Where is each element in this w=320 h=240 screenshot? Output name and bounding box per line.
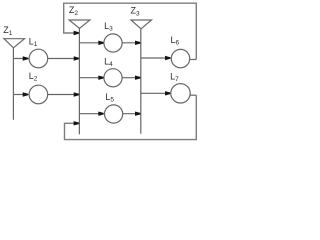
wire left bus (Z2 feed) <box>78 28 80 134</box>
arrow L3 to bus <box>135 41 140 45</box>
wire L7 output <box>190 94 196 96</box>
svg-text:L2: L2 <box>29 71 38 83</box>
wire L4 input <box>79 77 103 79</box>
svg-text:Z3: Z3 <box>131 5 141 17</box>
arrow L2 to bus <box>74 92 79 96</box>
wire top border feedback path <box>64 3 197 59</box>
label Z2 <box>69 5 79 17</box>
svg-text:Z1: Z1 <box>3 25 13 37</box>
wire L3 input <box>79 42 103 44</box>
wire L2 input <box>13 94 28 96</box>
circulator L6 <box>171 49 189 67</box>
arrow into L7 <box>165 91 170 95</box>
arrow into L3 <box>98 41 103 45</box>
svg-text:L1: L1 <box>29 37 38 49</box>
svg-text:Z2: Z2 <box>69 5 79 17</box>
label L5 <box>105 92 114 104</box>
circulator L1 <box>29 49 48 68</box>
arrow bottom feedback into left bus <box>74 121 79 125</box>
antenna Z2 <box>69 20 90 28</box>
circulator L5 <box>105 105 123 123</box>
wire Z1 feed <box>12 48 14 120</box>
arrow into L1 <box>23 56 28 60</box>
circulator L3 <box>104 34 122 52</box>
svg-text:L3: L3 <box>104 21 113 33</box>
arrow L4 to bus <box>135 76 140 80</box>
antenna Z1 <box>4 39 25 48</box>
arrow L5 to bus <box>135 112 140 116</box>
wire L7 input <box>141 92 171 94</box>
label Z3 <box>131 5 141 17</box>
svg-text:L7: L7 <box>170 72 179 84</box>
label Z1 <box>3 25 13 37</box>
wire L4 output <box>122 77 141 79</box>
antenna Z3 <box>131 20 152 29</box>
wire L1 output <box>48 58 80 60</box>
arrow into L5 <box>98 112 103 116</box>
label L1 <box>29 37 38 49</box>
wire right bus (Z3 feed) <box>140 29 142 134</box>
wire L1 input <box>13 58 28 60</box>
label L2 <box>29 71 38 83</box>
label L6 <box>171 35 180 47</box>
arrow L1 to bus <box>74 56 79 60</box>
label L7 <box>170 72 179 84</box>
wire L5 input <box>79 113 103 115</box>
wire L2 output <box>48 94 80 96</box>
arrow into L6 <box>165 56 170 60</box>
arrow into L4 <box>98 76 103 80</box>
wire L3 output <box>122 42 141 44</box>
arrow top feedback into Z2 feed <box>74 31 79 35</box>
label L4 <box>104 57 113 69</box>
svg-text:L4: L4 <box>104 57 113 69</box>
wire L5 output <box>122 113 141 115</box>
circulator L7 <box>171 84 190 103</box>
circulator L2 <box>29 85 48 104</box>
svg-text:L5: L5 <box>105 92 114 104</box>
wire bottom border feedback path <box>65 95 197 139</box>
wire L6 input <box>141 57 171 59</box>
svg-text:L6: L6 <box>171 35 180 47</box>
label L3 <box>104 21 113 33</box>
wire L6 output <box>190 59 197 61</box>
circulator L4 <box>104 69 122 87</box>
arrow into L2 <box>23 92 28 96</box>
